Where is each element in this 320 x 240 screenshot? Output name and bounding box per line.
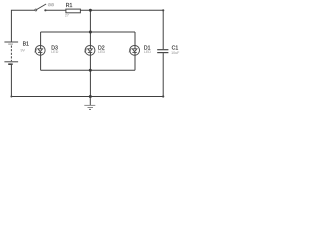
wire resistor R1 to top-right corner (80, 9, 163, 11)
LED D2 (84, 45, 95, 55)
wire capacitor C1 down to bottom-right corner (162, 53, 164, 96)
node cathode bus / D2 branch (89, 69, 92, 72)
wire D3 cathode branch (40, 52, 42, 70)
svg-text:LED: LED (51, 50, 58, 54)
wire cathode bus (41, 69, 135, 71)
wire D1 anode branch (134, 32, 136, 49)
wire D2 cathode branch to ground node (89, 52, 91, 96)
node bottom-left corner (10, 96, 12, 98)
svg-text:B1: B1 (23, 42, 29, 48)
wire battery top to switch (11, 10, 35, 41)
svg-text:27: 27 (65, 13, 69, 17)
wire D2 anode branch (89, 32, 91, 49)
wire D3 anode branch (40, 32, 42, 49)
svg-text:10uF: 10uF (171, 51, 180, 55)
resistor R1 (66, 9, 81, 13)
wire resistor node down to anode bus (89, 10, 91, 32)
capacitor C1 (157, 50, 168, 53)
wire anode bus (41, 31, 135, 33)
wire battery bottom to bottom rail (10, 65, 12, 97)
wire right side down to capacitor C1 (162, 10, 164, 49)
svg-text:R1: R1 (66, 3, 73, 9)
node bottom-right corner (162, 95, 164, 97)
ground (84, 97, 95, 110)
node anode bus / D2 branch (89, 31, 92, 34)
svg-text:9V: 9V (21, 49, 26, 53)
wire bottom rail (11, 96, 163, 98)
node resistor/anode-bus junction (89, 9, 92, 12)
node top-right corner (162, 9, 164, 11)
svg-text:LED: LED (144, 50, 151, 54)
wire switch to resistor R1 (45, 9, 66, 11)
LED D3 (34, 45, 45, 55)
switch S1 (35, 3, 54, 11)
wire D1 cathode branch (134, 52, 136, 70)
battery B1 (4, 42, 18, 64)
node ground junction (89, 95, 92, 98)
LED D1 (129, 45, 140, 55)
svg-text:LED: LED (98, 50, 105, 54)
